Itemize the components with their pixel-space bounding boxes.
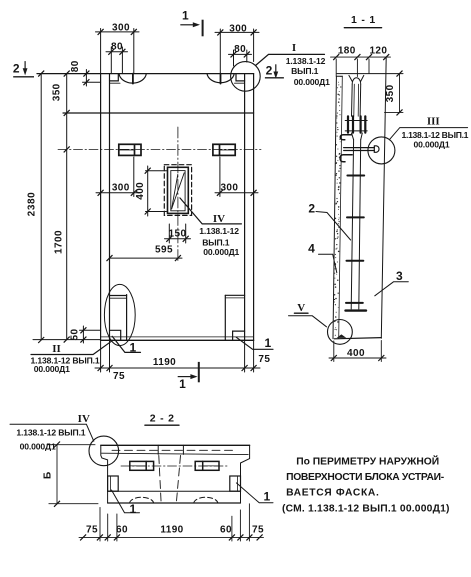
dim line bottom 2-2 bbox=[79, 536, 264, 538]
collar bars bbox=[347, 116, 349, 132]
svg-text:1.138.1-12: 1.138.1-12 bbox=[199, 226, 239, 236]
leader I bbox=[256, 54, 325, 65]
left column dim line 350/1700 bbox=[66, 74, 68, 340]
circle III detail bbox=[368, 137, 395, 164]
dim line 1190 bbox=[95, 367, 260, 369]
dome arc left dashed bbox=[130, 497, 154, 503]
panel inner left wall line bbox=[109, 74, 111, 341]
leader II bbox=[31, 341, 112, 355]
plate ext right bbox=[219, 157, 221, 197]
dim line 300 mid-left bbox=[96, 192, 139, 194]
right foot step bbox=[233, 331, 245, 340]
svg-text:2: 2 bbox=[308, 201, 315, 215]
left column dim line 2380 bbox=[40, 74, 42, 340]
collar horizontals bbox=[345, 120, 367, 122]
bottom edge section bbox=[334, 338, 381, 339]
upper hook bbox=[340, 135, 351, 140]
leader 4 bbox=[319, 254, 337, 272]
top edge section bbox=[337, 73, 403, 75]
svg-text:IV: IV bbox=[213, 213, 225, 225]
lower hook bbox=[340, 155, 352, 162]
pipe end bar bbox=[346, 309, 367, 311]
MAIN VIEW TEXTS bbox=[13, 9, 330, 391]
svg-text:00.000Д1: 00.000Д1 bbox=[34, 364, 70, 374]
slab right cap profile bbox=[241, 445, 250, 491]
svg-text:Б: Б bbox=[43, 471, 54, 479]
band right edge bbox=[240, 491, 242, 503]
svg-text:75: 75 bbox=[86, 524, 98, 535]
hidden top line dashed bbox=[112, 449, 236, 451]
svg-text:III: III bbox=[427, 116, 440, 128]
left foot box bbox=[108, 476, 119, 491]
left loop center bar bbox=[132, 74, 134, 84]
svg-text:60: 60 bbox=[116, 524, 128, 535]
bottom edge 2-2 bbox=[108, 502, 241, 504]
right channel top double line bbox=[225, 294, 244, 296]
leader III bbox=[390, 128, 468, 140]
slab lower line bbox=[102, 453, 249, 454]
bottom-left ext line bbox=[33, 339, 101, 341]
duct dashed taper left bbox=[159, 456, 161, 505]
right channel wall bbox=[224, 295, 226, 340]
embedded plate right 2-2 bbox=[195, 461, 219, 470]
dim 595 bbox=[110, 257, 183, 259]
svg-text:2: 2 bbox=[13, 62, 20, 76]
svg-text:ПОВЕРХНОСТИ БЛОКА УСТРАИ-: ПОВЕРХНОСТИ БЛОКА УСТРАИ- bbox=[286, 472, 445, 483]
opening dashed contour bbox=[164, 165, 191, 216]
tick marks main view bbox=[38, 29, 256, 371]
dim line 300 top-right bbox=[215, 31, 259, 33]
dim 150 bbox=[168, 224, 170, 243]
ticks section 1-1 bbox=[331, 54, 403, 361]
svg-text:00.000Д1: 00.000Д1 bbox=[20, 441, 56, 451]
svg-text:50: 50 bbox=[70, 329, 81, 341]
wall inner line bbox=[339, 76, 343, 338]
left loop notch bbox=[110, 74, 119, 81]
NOTE PARAGRAPH bbox=[282, 455, 450, 515]
svg-text:350: 350 bbox=[385, 84, 396, 102]
svg-text:1: 1 bbox=[264, 336, 271, 350]
section marker 1 bottom bbox=[178, 362, 199, 382]
leader 1 right 2-2 bbox=[236, 483, 273, 503]
svg-text:4: 4 bbox=[308, 241, 315, 255]
svg-text:V: V bbox=[297, 302, 305, 314]
svg-text:400: 400 bbox=[347, 348, 365, 359]
leader 1 right foot bbox=[236, 337, 273, 349]
svg-text:1190: 1190 bbox=[160, 524, 183, 535]
wedge detail in circle V bbox=[337, 334, 347, 338]
embedded plate left 2-2 bbox=[130, 461, 154, 470]
left channel wall bbox=[126, 295, 128, 341]
section marker 2 left bbox=[13, 61, 34, 77]
embedded plate M right bbox=[213, 144, 235, 155]
duct top solid lines bbox=[157, 445, 159, 454]
svg-text:60: 60 bbox=[220, 524, 232, 535]
panel left edge bbox=[100, 74, 102, 341]
leader IV main bbox=[180, 198, 242, 224]
svg-text:1: 1 bbox=[179, 377, 186, 391]
band left edge bbox=[107, 491, 109, 503]
leader V bbox=[289, 316, 327, 327]
svg-text:400: 400 bbox=[135, 182, 146, 200]
dim 400 vertical bbox=[147, 166, 149, 216]
wall outer line bbox=[333, 76, 336, 338]
dim line 300 mid-right bbox=[215, 192, 258, 194]
SECTION 1-1 bbox=[289, 28, 468, 362]
wall hatch dots bbox=[340, 76, 341, 77]
dim 50 vertical bbox=[82, 326, 84, 343]
svg-text:1.138.1-12 ВЫП.1: 1.138.1-12 ВЫП.1 bbox=[16, 428, 85, 438]
svg-text:80: 80 bbox=[234, 44, 246, 55]
funnel below collar bbox=[352, 133, 354, 140]
svg-text:ВАЕТСЯ ФАСКА.: ВАЕТСЯ ФАСКА. bbox=[286, 488, 379, 499]
svg-text:II: II bbox=[52, 343, 61, 355]
label V underline bbox=[294, 312, 308, 314]
panel inner right wall line bbox=[244, 74, 246, 341]
svg-text:ВЫП.1: ВЫП.1 bbox=[291, 66, 319, 76]
ext lines bottom 2-2 bbox=[99, 507, 101, 541]
detail circle I bbox=[231, 62, 261, 92]
svg-text:ВЫП.1: ВЫП.1 bbox=[202, 238, 230, 248]
svg-text:300: 300 bbox=[112, 22, 130, 33]
svg-text:300: 300 bbox=[220, 183, 238, 194]
dim B vertical bbox=[56, 445, 58, 504]
ext 80 top-left corner bbox=[85, 70, 87, 87]
slab left cap profile bbox=[101, 445, 108, 491]
leader 3 bbox=[375, 282, 409, 296]
svg-text:350: 350 bbox=[52, 83, 63, 101]
opening inner rect bbox=[171, 171, 185, 211]
top dim line 180/120 bbox=[331, 56, 391, 58]
panel bottom chamfer line bbox=[101, 336, 254, 338]
dim line 300 top-left bbox=[96, 31, 140, 33]
svg-text:1190: 1190 bbox=[153, 357, 176, 368]
concrete speckle wall texture bbox=[334, 76, 342, 336]
svg-text:300: 300 bbox=[229, 24, 247, 35]
circle V detail bbox=[328, 320, 353, 345]
left lifting loop arc bbox=[119, 74, 146, 84]
vertical centerline of opening bbox=[177, 127, 179, 262]
ext lines top-left 300 bbox=[100, 29, 102, 74]
svg-text:По ПЕРИМЕТРУ НАРУЖНОЙ: По ПЕРИМЕТРУ НАРУЖНОЙ bbox=[296, 455, 439, 468]
loop funnel bbox=[349, 75, 352, 81]
opening taper lines bbox=[172, 173, 185, 209]
svg-text:80: 80 bbox=[70, 60, 81, 72]
SECTION 2-2 TEXTS bbox=[16, 413, 270, 536]
svg-text:595: 595 bbox=[155, 245, 173, 256]
right edge section bbox=[381, 57, 386, 338]
svg-text:1: 1 bbox=[129, 502, 136, 516]
section marker 2 right bbox=[265, 64, 284, 78]
section marker 1 top bbox=[180, 20, 202, 37]
dim line 80 top-left bbox=[106, 51, 128, 53]
ext lines top-left 80 bbox=[110, 47, 112, 74]
duct dashed taper right bbox=[176, 456, 180, 505]
plate ext left bbox=[133, 157, 135, 197]
bottom ext lines bbox=[100, 340, 102, 372]
left foot step bbox=[110, 330, 121, 340]
inner horizontal line 350 below top bbox=[63, 112, 254, 114]
panel bottom edge bbox=[101, 339, 254, 341]
ext middle bbox=[356, 59, 358, 77]
leader IV section bbox=[10, 424, 94, 441]
right loop center bar bbox=[220, 74, 222, 84]
SECTION 1-1 TEXTS bbox=[297, 14, 468, 359]
svg-text:2380: 2380 bbox=[27, 192, 38, 217]
bar with loop end (detail III) bbox=[344, 147, 375, 149]
svg-text:1: 1 bbox=[129, 341, 136, 355]
dim 350 right bbox=[399, 74, 401, 113]
left channel top double line bbox=[110, 295, 127, 297]
dim line 80 top-right bbox=[229, 53, 252, 55]
svg-text:00.000Д1: 00.000Д1 bbox=[203, 247, 239, 257]
dim 400 bottom bbox=[333, 341, 335, 362]
svg-text:2: 2 bbox=[266, 63, 273, 77]
wall top cap bbox=[336, 75, 342, 77]
panel top edge / section 2-2 trace bbox=[37, 73, 254, 75]
ext lines top-right 80 bbox=[233, 50, 235, 66]
right loop notch bbox=[236, 74, 245, 81]
svg-text:1.138.1-12 ВЫП.1: 1.138.1-12 ВЫП.1 bbox=[402, 130, 469, 140]
svg-text:I: I bbox=[292, 42, 296, 54]
svg-text:00.000Д1: 00.000Д1 bbox=[414, 140, 450, 150]
svg-text:150: 150 bbox=[169, 228, 187, 239]
svg-text:00.000Д1: 00.000Д1 bbox=[294, 77, 330, 87]
panel right edge bbox=[253, 74, 255, 341]
centerline 2-2 dash-dot bbox=[121, 465, 228, 467]
ext lines top-right 300 bbox=[219, 29, 221, 74]
loop legs bbox=[351, 84, 354, 116]
dome arc right dashed bbox=[194, 497, 218, 503]
svg-text:IV: IV bbox=[78, 413, 90, 425]
right lifting loop arc bbox=[207, 74, 234, 83]
loop top arc bbox=[352, 78, 361, 84]
svg-text:120: 120 bbox=[369, 45, 387, 56]
leader 1 left foot bbox=[112, 336, 140, 352]
horizontal centerline dash-dot bbox=[58, 148, 261, 150]
slab top edge bbox=[101, 444, 250, 446]
band line bbox=[108, 490, 241, 492]
svg-text:1700: 1700 bbox=[54, 230, 65, 254]
svg-text:1: 1 bbox=[182, 9, 189, 23]
title underline 1-1 bbox=[344, 27, 381, 29]
embedded plate M left bbox=[119, 144, 141, 155]
svg-text:1: 1 bbox=[264, 490, 271, 504]
svg-text:(СМ. 1.138.1-12 ВЫП.1 00.000Д1: (СМ. 1.138.1-12 ВЫП.1 00.000Д1) bbox=[282, 503, 450, 514]
svg-text:1 - 1: 1 - 1 bbox=[351, 14, 376, 26]
leader 1 left 2-2 bbox=[112, 490, 140, 513]
leader 2 bbox=[316, 212, 351, 241]
ellipse callout II bbox=[104, 284, 135, 345]
ladder rungs bbox=[347, 175, 364, 177]
opening outer rect bbox=[168, 167, 189, 213]
right foot box bbox=[230, 476, 241, 491]
svg-text:1.138.1-12: 1.138.1-12 bbox=[286, 56, 326, 66]
svg-text:75: 75 bbox=[258, 354, 270, 365]
svg-text:75: 75 bbox=[252, 524, 264, 535]
SECTION 2-2 bbox=[10, 424, 273, 541]
svg-text:300: 300 bbox=[112, 182, 130, 193]
svg-text:80: 80 bbox=[111, 42, 123, 53]
svg-text:180: 180 bbox=[338, 45, 356, 56]
svg-text:2 - 2: 2 - 2 bbox=[150, 413, 175, 425]
circle IV detail bbox=[89, 436, 119, 466]
ticks section 2-2 bbox=[54, 442, 263, 541]
svg-text:75: 75 bbox=[113, 371, 125, 382]
svg-text:3: 3 bbox=[396, 269, 403, 283]
title underline 2-2 bbox=[145, 424, 179, 426]
pipe lines bbox=[351, 140, 353, 309]
